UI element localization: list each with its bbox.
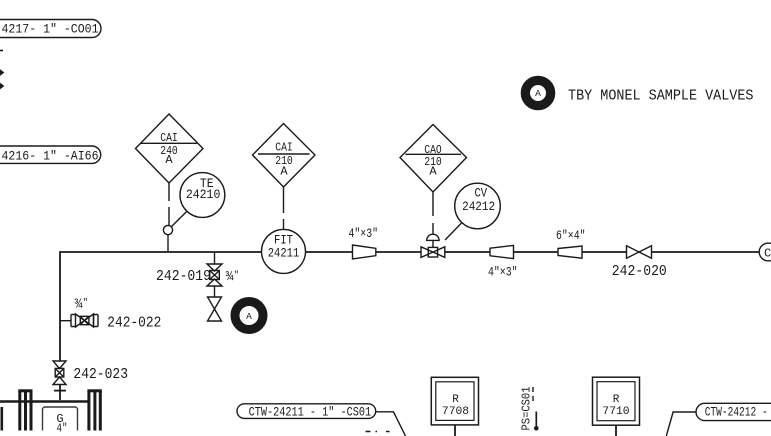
svg-text:242-019: 242-019 <box>156 268 211 285</box>
reducer 3"x4" (right of valve) <box>490 245 514 258</box>
svg-text:4": 4" <box>57 421 68 435</box>
svg-text:24211: 24211 <box>268 246 300 261</box>
reducer 6"x4" <box>558 246 582 258</box>
svg-text:C: C <box>764 247 771 261</box>
wire: vertical drop at x=60 <box>59 251 61 400</box>
svg-text:4216- 1" -AI66: 4216- 1" -AI66 <box>2 149 99 164</box>
spec break pin <box>534 412 539 431</box>
instrument diamond CAI 210 A <box>253 124 316 188</box>
spec break dashed line <box>532 387 534 404</box>
svg-text:A: A <box>165 153 173 167</box>
svg-text:4"×3": 4"×3" <box>488 264 518 279</box>
control valve body <box>421 241 445 258</box>
svg-text:24212: 24212 <box>462 199 495 214</box>
valve fragment at left edge (cut off) <box>0 70 3 89</box>
svg-text:4217- 1" -CO01: 4217- 1" -CO01 <box>2 22 99 37</box>
equipment inner box G 4" <box>43 407 78 435</box>
svg-text:CTW-24212 -: CTW-24212 - <box>705 404 768 419</box>
svg-text:A: A <box>246 311 252 322</box>
svg-text:4"×3": 4"×3" <box>349 226 379 241</box>
equipment G top line <box>0 400 88 403</box>
svg-text:242-023: 242-023 <box>73 366 128 383</box>
equipment left edge wall <box>0 407 3 431</box>
svg-text:R: R <box>613 394 620 406</box>
flanged tick below 242-023 <box>54 390 66 392</box>
svg-text:R: R <box>452 394 459 406</box>
node: instrument tap circle <box>163 225 172 234</box>
wire: CV leader to valve <box>445 223 462 241</box>
wire below R7708 <box>454 425 456 436</box>
wire: TE to tap <box>171 211 187 227</box>
svg-text:7708: 7708 <box>442 406 469 418</box>
pipeline label 4217- 1" -CO01 <box>0 20 101 38</box>
off-page connector (cut at right edge) <box>759 243 771 261</box>
valve 242-020 <box>627 246 652 258</box>
wire: between 019 valves <box>214 286 216 297</box>
instrument circle FIT 24211 <box>262 229 306 273</box>
svg-text:CAI: CAI <box>275 140 293 154</box>
equipment nozzle (left) <box>18 391 32 431</box>
wire: stub to 242-022 <box>60 320 71 322</box>
svg-text:PS=CS01: PS=CS01 <box>521 386 534 430</box>
svg-text:A: A <box>535 88 541 99</box>
equipment nozzle (right) <box>87 391 101 431</box>
instrument diamond CAO 210 A <box>400 125 467 193</box>
svg-text:6"×4": 6"×4" <box>556 228 586 243</box>
instrument circle CV 24212 <box>455 183 501 229</box>
svg-text:242-020: 242-020 <box>612 263 667 280</box>
valve (sample, below 242-019) <box>208 297 222 321</box>
relief box R 7708 <box>431 377 478 425</box>
svg-text:A: A <box>280 164 288 178</box>
svg-text:242-022: 242-022 <box>107 314 161 331</box>
wire: branch down to 242-019 <box>214 252 216 264</box>
leader from CTW-24211 <box>376 412 406 436</box>
pipeline label CTW-24211- 1" -CS01 <box>237 404 376 420</box>
pipeline label 4216- 1" -AI66 <box>0 146 101 164</box>
valve 242-022 <box>71 314 98 327</box>
svg-text:7710: 7710 <box>602 406 629 418</box>
instrument circle TE 24210 <box>180 173 225 218</box>
svg-text:TBY MONEL SAMPLE VALVES: TBY MONEL SAMPLE VALVES <box>568 87 754 104</box>
legend sample-valve symbol A <box>525 80 550 105</box>
svg-text:24210: 24210 <box>186 187 221 202</box>
reducer 4"x3" (left) <box>353 245 376 259</box>
sample point symbol A <box>235 302 263 330</box>
wire: dashed signal CAO210 to control valve <box>432 192 434 234</box>
instrument diamond CAI 240 A <box>136 114 204 183</box>
main pipe (horizontal) <box>60 251 759 253</box>
wire below R7710 <box>615 425 617 436</box>
pipeline label CTW-24212- (cut at right edge) <box>696 403 771 420</box>
svg-text:A: A <box>429 165 437 179</box>
wire stub at left edge (cut off) <box>0 50 3 52</box>
svg-text:CTW-24211 - 1" -CS01: CTW-24211 - 1" -CS01 <box>249 405 372 420</box>
valve 242-023 <box>53 361 66 385</box>
wire: dashed signal CAI240 to tap <box>168 183 170 225</box>
relief box R 7710 <box>593 377 640 425</box>
dash-dot fragment at bottom <box>366 431 390 433</box>
wire: tap to pipe <box>167 235 169 252</box>
leader to CTW-24212 <box>666 412 696 436</box>
control valve actuator dome <box>427 234 439 240</box>
wire: dashed signal CAI210 to FIT <box>283 187 285 229</box>
valve 242-019 <box>207 264 222 286</box>
